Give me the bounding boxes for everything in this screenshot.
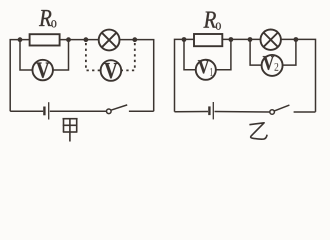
- wire: circuit 甲 outer loop (left rail, top wire, right rail, bottom wire): [10, 40, 154, 112]
- wire: voltmeter V2 branch across lamp (circuit 乙): [250, 40, 296, 65]
- switch S (circuit 乙): [270, 105, 290, 114]
- wire: voltmeter V1 branch across R0 (circuit 乙): [184, 40, 231, 70]
- node dot (甲, right of R0): [66, 37, 71, 42]
- node dot (甲, right of lamp): [132, 37, 137, 42]
- voltmeter V1 (circuit 乙): [196, 60, 216, 80]
- label subscript 2 of V2 (circuit 乙): [274, 63, 278, 71]
- node dot (乙, left of lamp): [248, 37, 253, 42]
- node dot (甲, left of lamp): [84, 37, 89, 42]
- label V of V2 (circuit 乙): [263, 56, 274, 70]
- lamp L2 (circuit 乙): [261, 30, 281, 50]
- label V (voltmeter across lamp, circuit 甲): [104, 63, 117, 78]
- battery (circuit 乙): [209, 102, 213, 119]
- label 0 subscript (R0, circuit 乙): [216, 23, 221, 30]
- wire: voltmeter V branch across R0 (solid): [20, 40, 69, 70]
- node dot (乙, left of R0): [182, 37, 187, 42]
- node dot (乙, right of R0): [229, 37, 234, 42]
- resistor R0 (circuit 乙): [194, 34, 222, 46]
- resistor R0 (circuit 甲): [30, 34, 60, 45]
- switch S (circuit 甲): [107, 105, 128, 114]
- voltmeter V across R0 (circuit 甲): [32, 60, 53, 81]
- label 甲 (circuit 1 name): [63, 119, 78, 142]
- node dot (甲, left of R0): [18, 37, 23, 42]
- wire: circuit 乙 outer loop: [175, 39, 316, 112]
- voltmeter V across lamp (circuit 甲): [101, 60, 122, 81]
- label R (R0, circuit 甲): [39, 10, 51, 26]
- label subscript 1 of V1 (circuit 乙): [210, 68, 213, 76]
- lamp L1 (circuit 甲): [99, 30, 120, 51]
- voltmeter V2 (circuit 乙): [262, 55, 283, 76]
- label 乙 (circuit 2 name): [249, 123, 267, 139]
- label 0 subscript (R0, circuit 甲): [51, 20, 56, 27]
- node dot (乙, right of lamp): [294, 37, 299, 42]
- wire: voltmeter V branch across lamp (dashed): [86, 43, 135, 70]
- battery (circuit 甲): [44, 102, 48, 119]
- label R (R0, circuit 乙): [203, 12, 215, 28]
- label V of V1 (circuit 乙): [198, 60, 209, 73]
- label V (voltmeter across R0, circuit 甲): [36, 63, 49, 78]
